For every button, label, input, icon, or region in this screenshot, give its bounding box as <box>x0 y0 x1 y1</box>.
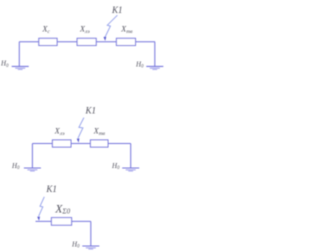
svg-text:К1: К1 <box>45 184 56 194</box>
svg-text:К1: К1 <box>111 5 122 15</box>
svg-text:К1: К1 <box>85 106 96 116</box>
